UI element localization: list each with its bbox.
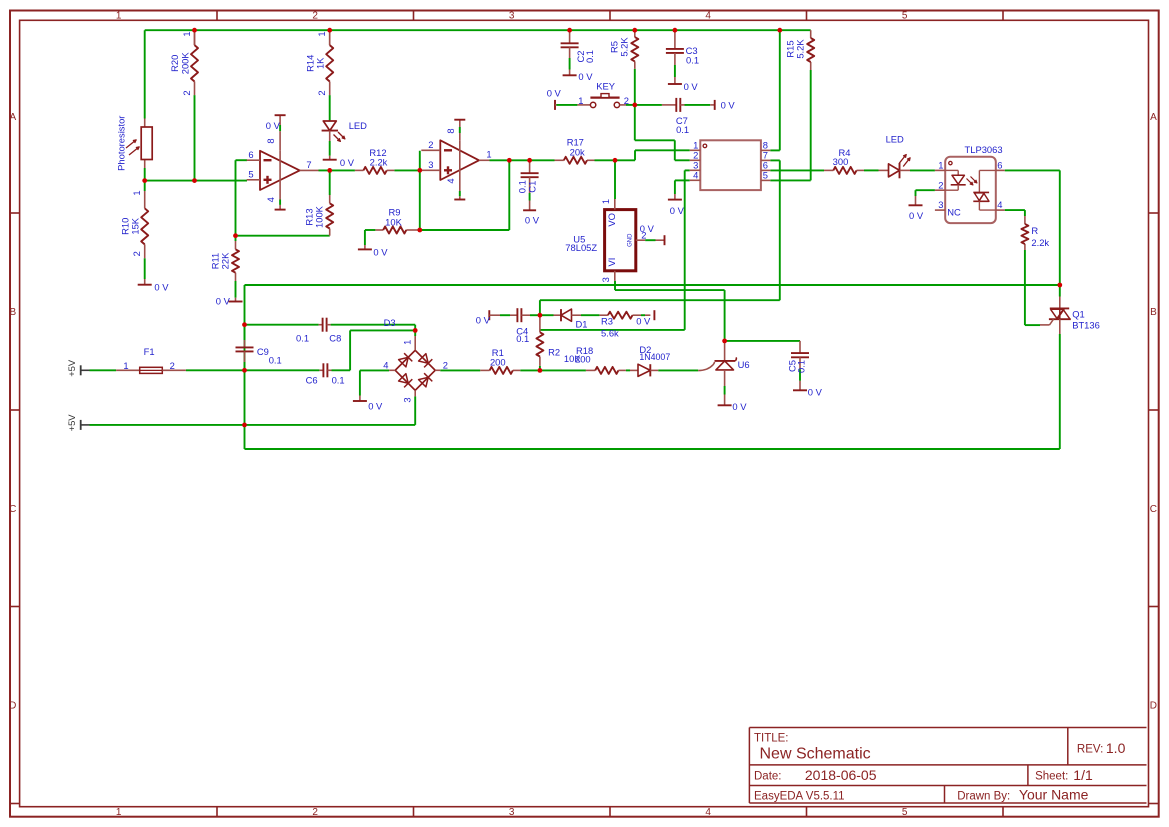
svg-text:2.2k: 2.2k	[370, 157, 388, 168]
svg-text:New Schematic: New Schematic	[760, 745, 871, 762]
svg-text:REV:: REV:	[1077, 744, 1103, 756]
svg-text:KEY: KEY	[596, 80, 616, 91]
svg-text:C1: C1	[526, 181, 537, 193]
svg-text:7: 7	[306, 159, 311, 170]
svg-text:F1: F1	[144, 346, 155, 357]
svg-text:0 V: 0 V	[216, 296, 231, 307]
svg-text:R: R	[1031, 225, 1038, 236]
svg-text:Your Name: Your Name	[1019, 787, 1089, 803]
svg-text:0 V: 0 V	[266, 120, 281, 131]
svg-text:1: 1	[116, 11, 122, 22]
svg-text:1: 1	[123, 360, 128, 371]
svg-text:1/1: 1/1	[1073, 767, 1093, 783]
svg-text:LED: LED	[349, 120, 367, 131]
svg-text:15K: 15K	[130, 217, 141, 234]
svg-text:R3: R3	[601, 315, 613, 326]
svg-text:3: 3	[509, 807, 515, 818]
svg-text:TLP3063: TLP3063	[965, 144, 1003, 155]
svg-text:5: 5	[902, 11, 908, 22]
svg-text:6: 6	[248, 149, 253, 160]
svg-text:TITLE:: TITLE:	[754, 733, 789, 745]
svg-text:0 V: 0 V	[476, 314, 491, 325]
svg-text:200: 200	[490, 356, 506, 367]
svg-text:3: 3	[938, 199, 943, 210]
svg-text:1K: 1K	[315, 57, 326, 69]
svg-text:D3: D3	[384, 317, 396, 328]
svg-text:C6: C6	[306, 374, 318, 385]
svg-text:D: D	[9, 701, 16, 712]
svg-text:0 V: 0 V	[373, 246, 388, 257]
svg-text:GND: GND	[628, 233, 634, 247]
svg-text:R2: R2	[548, 347, 560, 358]
svg-text:VI: VI	[606, 258, 617, 267]
svg-text:0 V: 0 V	[154, 281, 169, 292]
svg-text:B: B	[9, 307, 16, 318]
svg-text:1: 1	[116, 807, 122, 818]
svg-text:2.2k: 2.2k	[1031, 237, 1049, 248]
svg-text:C: C	[9, 504, 16, 515]
svg-text:3: 3	[428, 159, 433, 170]
svg-text:200: 200	[575, 353, 591, 364]
svg-text:3: 3	[600, 277, 611, 282]
svg-text:4: 4	[265, 197, 276, 202]
svg-text:+5V: +5V	[66, 414, 77, 432]
svg-text:0 V: 0 V	[732, 401, 747, 412]
svg-text:22K: 22K	[219, 252, 230, 269]
svg-text:0 V: 0 V	[670, 205, 685, 216]
svg-text:2: 2	[312, 11, 318, 22]
svg-text:10K: 10K	[385, 216, 402, 227]
svg-text:100K: 100K	[313, 205, 324, 228]
svg-text:0 V: 0 V	[684, 81, 699, 92]
svg-text:5.2K: 5.2K	[795, 39, 806, 59]
svg-text:0.1: 0.1	[296, 332, 309, 343]
svg-text:5: 5	[902, 807, 908, 818]
svg-text:0 V: 0 V	[547, 87, 562, 98]
svg-text:D1: D1	[576, 319, 588, 330]
svg-text:1.0: 1.0	[1106, 740, 1126, 756]
svg-text:A: A	[1150, 112, 1157, 123]
svg-text:5: 5	[763, 170, 768, 181]
svg-text:EasyEDA V5.5.11: EasyEDA V5.5.11	[754, 790, 845, 802]
svg-text:NC: NC	[947, 207, 961, 218]
svg-text:8: 8	[445, 128, 456, 133]
svg-text:0 V: 0 V	[578, 71, 593, 82]
svg-text:1: 1	[316, 31, 327, 36]
svg-text:2: 2	[428, 139, 433, 150]
svg-text:U6: U6	[738, 359, 750, 370]
svg-text:LED: LED	[886, 133, 904, 144]
svg-text:2: 2	[312, 807, 318, 818]
svg-text:4: 4	[705, 11, 711, 22]
svg-text:2: 2	[170, 360, 175, 371]
svg-text:4: 4	[693, 169, 698, 180]
svg-text:0.1: 0.1	[796, 360, 807, 373]
svg-text:C8: C8	[329, 332, 341, 343]
svg-text:C9: C9	[257, 346, 269, 357]
svg-text:0 V: 0 V	[909, 210, 924, 221]
svg-text:2: 2	[624, 95, 629, 106]
svg-text:3: 3	[509, 11, 515, 22]
svg-text:B: B	[1150, 307, 1157, 318]
svg-text:0.1: 0.1	[686, 54, 699, 65]
svg-text:0 V: 0 V	[525, 215, 540, 226]
svg-text:4: 4	[705, 807, 711, 818]
svg-text:0.1: 0.1	[269, 354, 282, 365]
svg-text:0.1: 0.1	[676, 124, 689, 135]
svg-text:Sheet:: Sheet:	[1035, 771, 1068, 783]
svg-text:2: 2	[938, 179, 943, 190]
svg-text:+5V: +5V	[66, 359, 77, 377]
svg-text:4: 4	[445, 178, 456, 183]
svg-text:2018-06-05: 2018-06-05	[805, 767, 877, 783]
svg-text:1: 1	[938, 160, 943, 171]
svg-text:4: 4	[997, 199, 1002, 210]
svg-text:0.1: 0.1	[332, 374, 345, 385]
svg-text:2: 2	[131, 251, 142, 256]
svg-text:5.2K: 5.2K	[619, 37, 630, 57]
svg-text:0 V: 0 V	[340, 157, 355, 168]
svg-text:A: A	[9, 112, 16, 123]
svg-text:0 V: 0 V	[636, 315, 651, 326]
svg-text:BT136: BT136	[1072, 319, 1100, 330]
svg-text:Drawn By:: Drawn By:	[957, 790, 1010, 802]
svg-text:Q1: Q1	[1072, 309, 1085, 320]
svg-text:Photoresistor: Photoresistor	[116, 116, 127, 171]
svg-text:0 V: 0 V	[640, 223, 655, 234]
svg-text:2: 2	[316, 90, 327, 95]
svg-text:3: 3	[402, 397, 413, 402]
svg-text:2: 2	[443, 359, 448, 370]
svg-text:8: 8	[265, 138, 276, 143]
svg-text:300: 300	[833, 156, 849, 167]
svg-text:VO: VO	[606, 213, 617, 227]
svg-text:0 V: 0 V	[808, 387, 823, 398]
svg-text:2: 2	[181, 90, 192, 95]
svg-text:0 V: 0 V	[721, 100, 736, 111]
svg-text:1: 1	[578, 95, 583, 106]
svg-text:1: 1	[486, 148, 491, 159]
svg-text:1N4007: 1N4007	[639, 352, 670, 362]
svg-text:1: 1	[402, 340, 413, 345]
svg-text:20k: 20k	[570, 147, 585, 158]
svg-text:0 V: 0 V	[368, 400, 383, 411]
svg-text:5.6k: 5.6k	[601, 327, 619, 338]
svg-text:200K: 200K	[179, 52, 190, 75]
svg-text:0.1: 0.1	[584, 50, 595, 63]
svg-text:6: 6	[997, 160, 1002, 171]
svg-text:Date:: Date:	[754, 771, 782, 783]
svg-text:78L05Z: 78L05Z	[565, 242, 597, 253]
svg-text:0.1: 0.1	[516, 333, 529, 344]
svg-text:5: 5	[248, 169, 253, 180]
svg-text:1: 1	[181, 31, 192, 36]
svg-text:C: C	[1150, 504, 1157, 515]
svg-text:D: D	[1150, 701, 1157, 712]
svg-text:1: 1	[600, 199, 611, 204]
svg-text:4: 4	[383, 359, 388, 370]
svg-text:1: 1	[131, 190, 142, 195]
